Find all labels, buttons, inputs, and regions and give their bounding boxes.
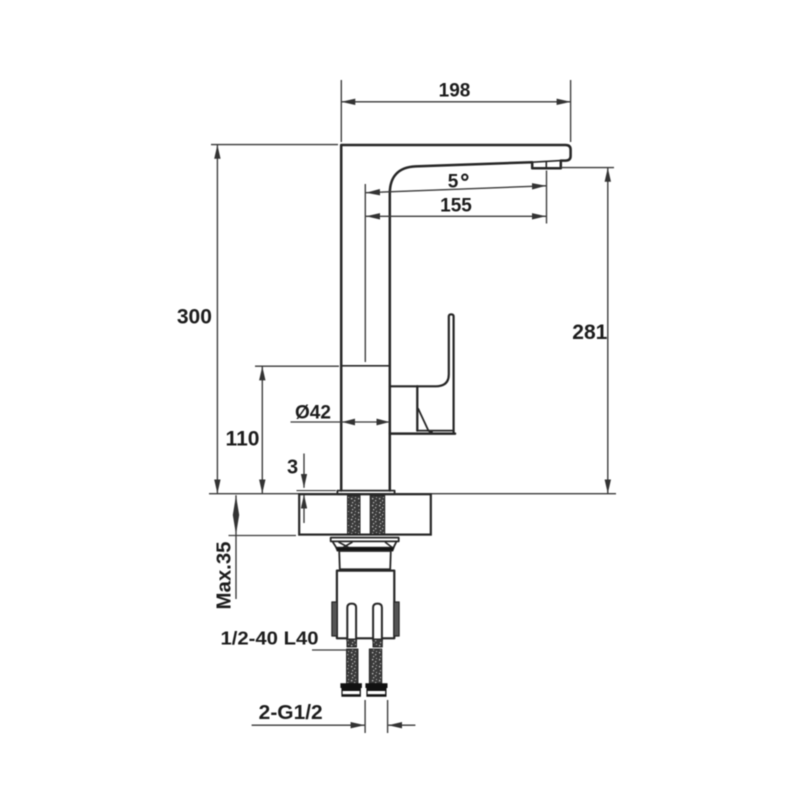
svg-text:110: 110 [226,427,260,450]
svg-text:198: 198 [439,81,471,102]
svg-text:1/2-40 L40: 1/2-40 L40 [221,628,319,649]
svg-text:5: 5 [448,171,459,192]
svg-text:2-G1/2: 2-G1/2 [259,702,323,724]
svg-text:3: 3 [287,457,298,479]
svg-text:155: 155 [440,195,472,216]
svg-text:Ø42: Ø42 [295,403,331,424]
svg-text:300: 300 [177,305,212,328]
svg-text:281: 281 [572,321,607,344]
svg-text:Max.35: Max.35 [214,542,236,610]
